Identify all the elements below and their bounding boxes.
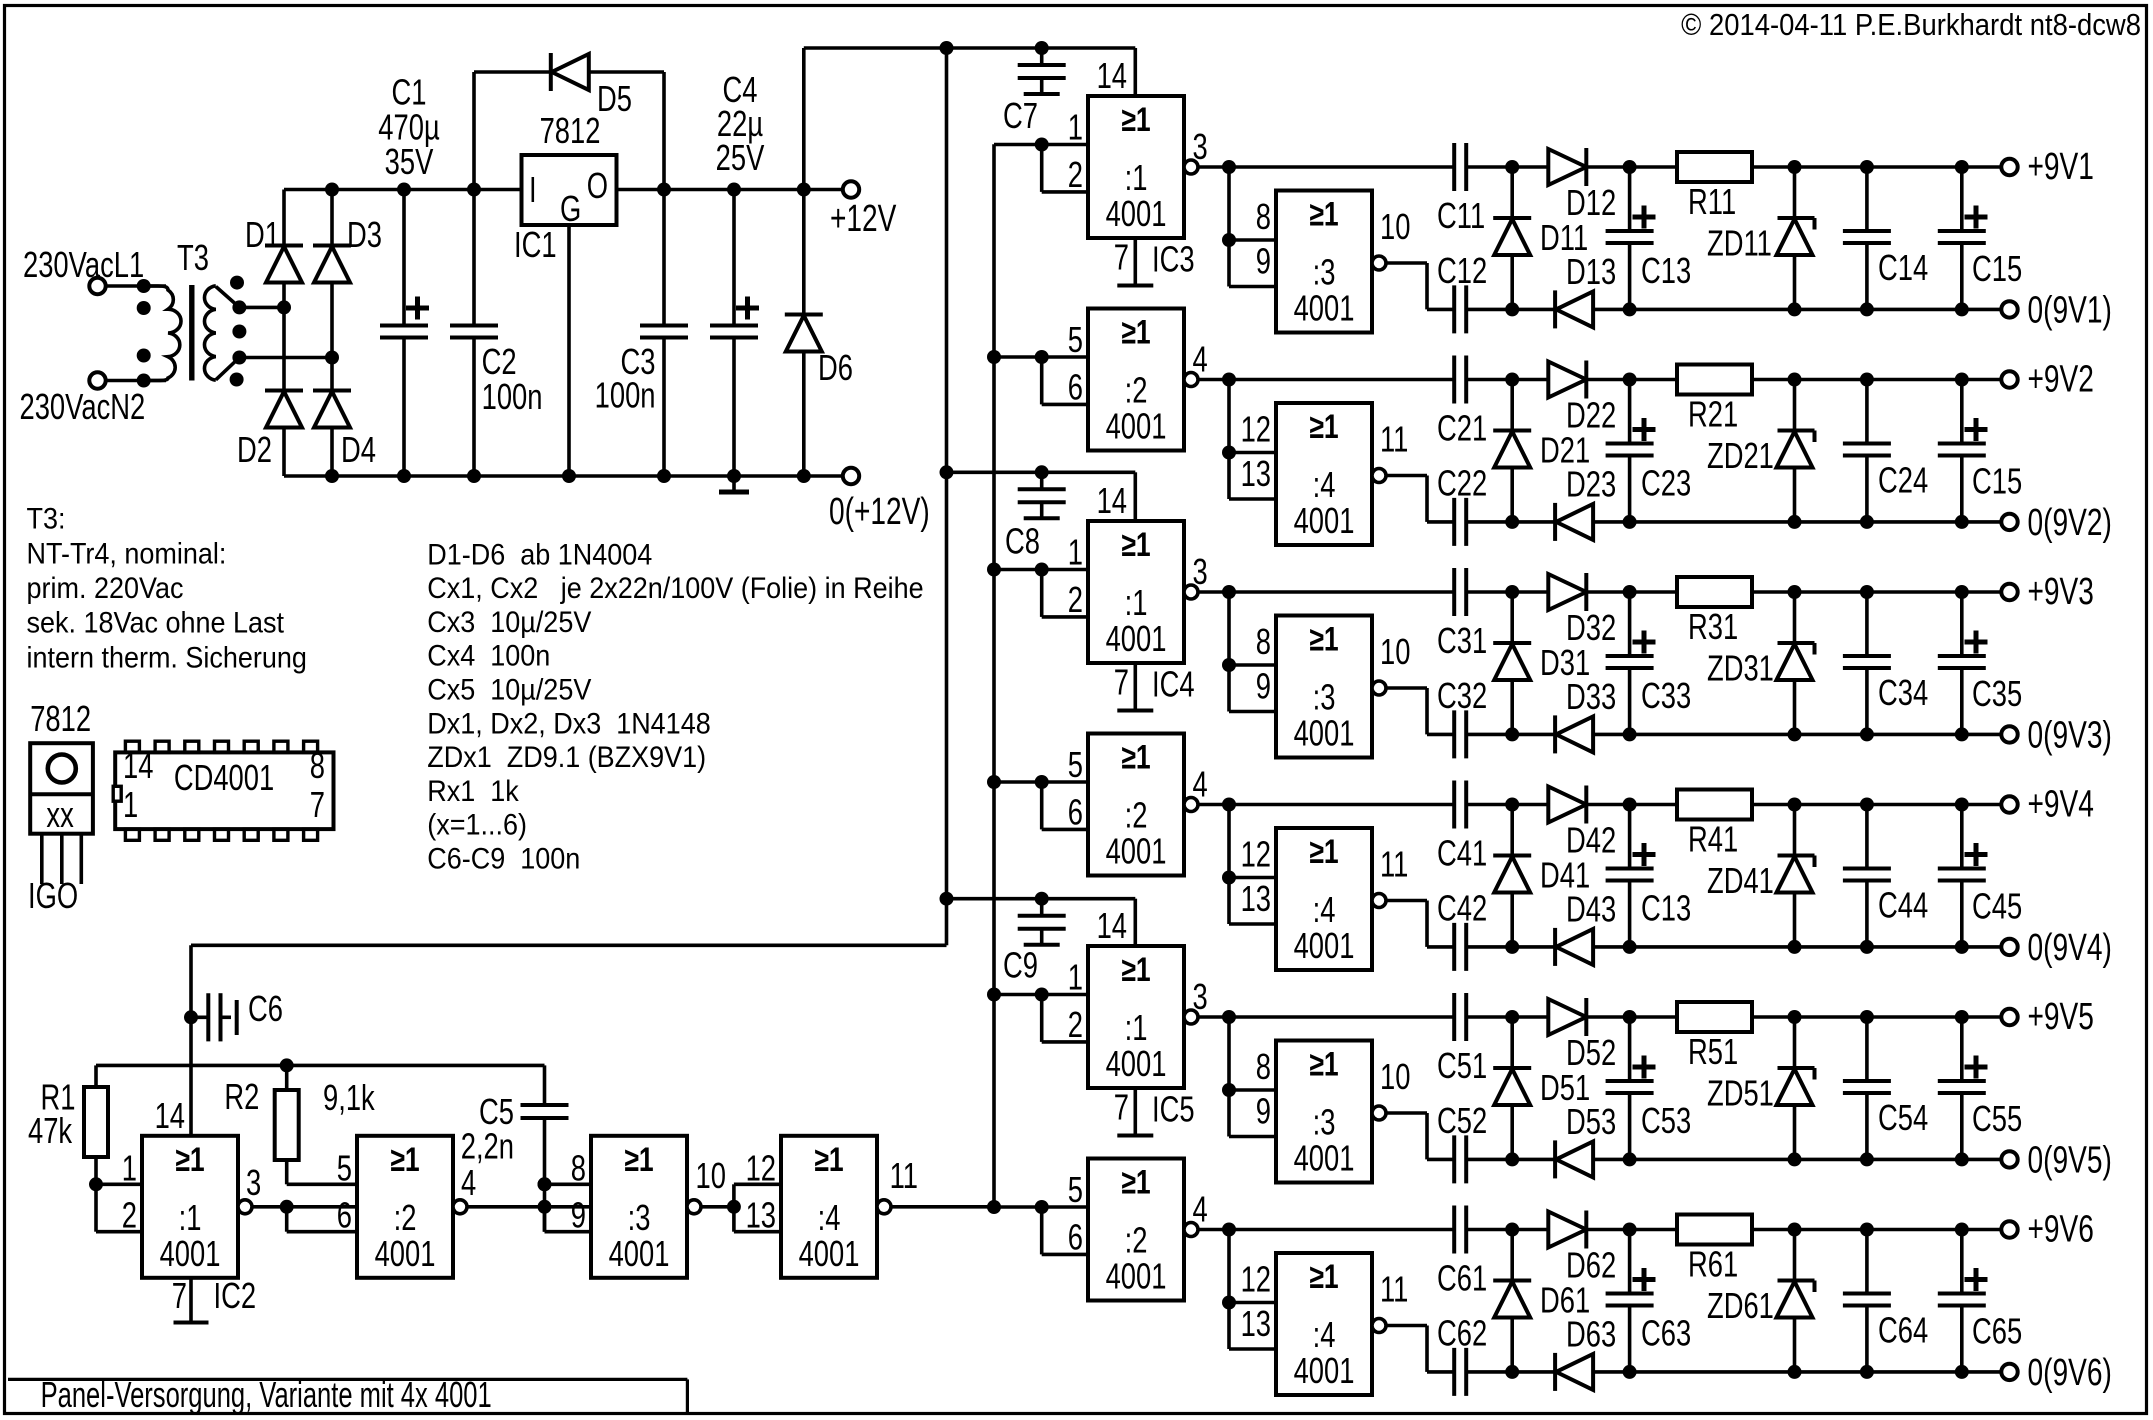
svg-text:230VacN2: 230VacN2 bbox=[20, 386, 146, 427]
label C15 channel 2 bbox=[1972, 461, 2022, 502]
label D1 bbox=[245, 214, 280, 255]
pin 2 IC4:1 bbox=[1068, 579, 1083, 620]
svg-text:0(9V2): 0(9V2) bbox=[2028, 502, 2112, 544]
capacitor C32 bbox=[1454, 710, 1466, 758]
gate IC2:2 output bubble bbox=[453, 1200, 467, 1214]
label C8 bbox=[1005, 521, 1040, 562]
svg-text:2: 2 bbox=[122, 1195, 137, 1236]
zener ZD11 bbox=[1777, 167, 1815, 309]
svg-text:D13: D13 bbox=[1566, 251, 1616, 292]
capacitor C65 channel 6 bbox=[1938, 1230, 1988, 1372]
diode D4 bbox=[313, 358, 351, 477]
gate IC5:2 output bubble bbox=[1184, 1223, 1198, 1237]
svg-text:100n: 100n bbox=[595, 375, 656, 416]
wire pin 7 ground IC4 bbox=[1117, 663, 1153, 711]
wire secondary tap lower bbox=[216, 351, 339, 380]
label D42 bbox=[1566, 820, 1616, 861]
svg-text:C23: C23 bbox=[1641, 463, 1691, 504]
svg-text:1: 1 bbox=[1068, 532, 1083, 573]
wire IC2 pin7 ground bbox=[174, 1278, 209, 1323]
svg-text:6: 6 bbox=[337, 1195, 352, 1236]
svg-text:11: 11 bbox=[890, 1155, 918, 1196]
capacitor C31 bbox=[1454, 568, 1466, 616]
wire channel 2 bottom rail bbox=[1427, 515, 2001, 529]
op-amp gate IC4:2 bbox=[1088, 734, 1184, 876]
svg-text:C31: C31 bbox=[1437, 620, 1487, 661]
svg-text:13: 13 bbox=[1241, 1303, 1271, 1344]
terminal +9V1 bbox=[2001, 159, 2017, 175]
label 0(9V4) bbox=[2028, 927, 2112, 969]
label +9V1 bbox=[2028, 146, 2094, 188]
wire pin 14 IC3 bbox=[1134, 48, 1138, 96]
wire channel 6 top rail bbox=[1198, 1223, 2001, 1237]
svg-text:C35: C35 bbox=[1972, 673, 2022, 714]
svg-text:0(9V6): 0(9V6) bbox=[2028, 1352, 2112, 1394]
svg-text:CD4001: CD4001 bbox=[174, 757, 274, 798]
label C32 bbox=[1437, 675, 1487, 716]
svg-text:14: 14 bbox=[123, 745, 153, 786]
diode D31 bbox=[1493, 592, 1531, 734]
svg-text:1: 1 bbox=[1068, 107, 1083, 148]
wire gate B input jog 13 bbox=[1229, 1303, 1276, 1350]
svg-text:C13: C13 bbox=[1641, 888, 1691, 929]
label C9 bbox=[1003, 945, 1038, 986]
label C2 value 100n bbox=[482, 376, 543, 417]
gate IC4:3 output bubble bbox=[1372, 681, 1386, 695]
wire pin 14 IC4 bbox=[1134, 472, 1138, 521]
wire IC2 pin1 bbox=[89, 1177, 142, 1191]
terminal 0(9V5) bbox=[2001, 1151, 2017, 1167]
resistor R1 bbox=[84, 1065, 108, 1184]
label D63 bbox=[1566, 1314, 1616, 1355]
wire gate B output step bbox=[1386, 263, 1427, 309]
gate IC2:2 bbox=[357, 1136, 453, 1278]
svg-text:T3:: T3: bbox=[27, 502, 66, 536]
gate IC3:2 output bubble bbox=[1184, 373, 1198, 387]
svg-text:8: 8 bbox=[1256, 621, 1271, 662]
label ZD11 bbox=[1707, 223, 1772, 264]
wire gate B input 12 bbox=[1222, 805, 1276, 885]
svg-text:4001: 4001 bbox=[1294, 500, 1355, 541]
capacitor C15 channel 1 bbox=[1938, 167, 1988, 309]
svg-text:7812: 7812 bbox=[540, 110, 601, 151]
svg-text:≥1: ≥1 bbox=[1309, 1045, 1338, 1083]
wire N2 to primary bbox=[106, 374, 167, 388]
pin 9 IC2 bbox=[571, 1195, 586, 1236]
terminal +9V2 bbox=[2001, 371, 2017, 387]
label C62 bbox=[1437, 1313, 1487, 1354]
label R2 bbox=[224, 1076, 259, 1117]
svg-text:4001: 4001 bbox=[160, 1233, 221, 1274]
svg-text::3: :3 bbox=[1313, 1102, 1336, 1143]
capacitor C14 bbox=[1843, 167, 1891, 309]
svg-text:D32: D32 bbox=[1566, 607, 1616, 648]
svg-text:5: 5 bbox=[337, 1148, 352, 1189]
wire pin 7 ground IC3 bbox=[1117, 238, 1153, 286]
wire input gate IC4:2 bbox=[987, 775, 1088, 789]
CD4001 package drawing bbox=[113, 741, 333, 840]
svg-text:7: 7 bbox=[172, 1275, 187, 1316]
pin 10 IC3:3 bbox=[1380, 206, 1410, 247]
svg-text:T3: T3 bbox=[177, 237, 209, 278]
wire gate B output step bbox=[1386, 901, 1427, 947]
label D11 bbox=[1540, 217, 1588, 258]
pin 1 IC2 bbox=[122, 1148, 137, 1189]
wire input gate IC3:2 bbox=[987, 350, 1088, 364]
svg-text:9: 9 bbox=[1256, 666, 1271, 707]
label C3 value 100n bbox=[595, 375, 656, 416]
svg-text:2: 2 bbox=[1068, 154, 1083, 195]
capacitor C53 channel 5 bbox=[1606, 1017, 1656, 1159]
label R2 value 9,1k bbox=[323, 1077, 376, 1118]
pin 10 IC5:3 bbox=[1380, 1056, 1410, 1097]
wire IC2:1 out bbox=[252, 1200, 357, 1214]
pin 3 IC3:1 bbox=[1193, 126, 1208, 167]
svg-text:IC4: IC4 bbox=[1152, 664, 1195, 705]
svg-text:C13: C13 bbox=[1641, 250, 1691, 291]
svg-text:≥1: ≥1 bbox=[1309, 408, 1338, 446]
svg-text:IGO: IGO bbox=[28, 875, 78, 916]
svg-text:7812: 7812 bbox=[30, 698, 91, 739]
capacitor C41 bbox=[1454, 781, 1466, 829]
label R11 bbox=[1688, 181, 1736, 222]
pin 9 IC5:3 bbox=[1256, 1091, 1271, 1132]
svg-text:0(9V1): 0(9V1) bbox=[2028, 289, 2112, 331]
svg-text:C64: C64 bbox=[1878, 1310, 1928, 1351]
diode D42 bbox=[1548, 786, 1586, 824]
pin 1 IC4:1 bbox=[1068, 532, 1083, 573]
diode D21 bbox=[1493, 380, 1531, 522]
svg-text:ZD21: ZD21 bbox=[1707, 435, 1774, 476]
wire channel 4 top rail bbox=[1198, 798, 2001, 812]
transformer T3 secondary dots bbox=[230, 276, 247, 387]
svg-text:4: 4 bbox=[1193, 339, 1208, 380]
wire gate B input 8 bbox=[1222, 1017, 1276, 1097]
svg-text:13: 13 bbox=[1241, 878, 1271, 919]
svg-text:≥1: ≥1 bbox=[1121, 1163, 1150, 1201]
capacitor C11 bbox=[1454, 143, 1466, 191]
wire IC2:3 out bbox=[701, 1200, 741, 1214]
svg-text:C7: C7 bbox=[1003, 95, 1038, 136]
svg-text:14: 14 bbox=[1097, 55, 1127, 96]
diode D1 bbox=[265, 190, 303, 308]
svg-text:IC2: IC2 bbox=[214, 1275, 257, 1316]
wire secondary tap upper bbox=[216, 287, 291, 315]
wire channel 5 bottom rail bbox=[1427, 1152, 2001, 1166]
svg-text:3: 3 bbox=[246, 1162, 261, 1203]
svg-text:IC5: IC5 bbox=[1152, 1089, 1195, 1130]
svg-text::1: :1 bbox=[1125, 157, 1148, 198]
terminal +9V6 bbox=[2001, 1221, 2017, 1237]
label C5 bbox=[479, 1091, 514, 1132]
pin 7 IC5 bbox=[1114, 1087, 1129, 1128]
pin 2 IC3:1 bbox=[1068, 154, 1083, 195]
svg-text:12: 12 bbox=[1241, 409, 1271, 450]
pin 4 IC5:2 bbox=[1193, 1189, 1208, 1230]
label C3 bbox=[621, 341, 656, 382]
label C64 bbox=[1878, 1310, 1928, 1351]
label C14 bbox=[1878, 247, 1928, 288]
svg-text::2: :2 bbox=[1125, 1220, 1148, 1261]
label 230VacL1 bbox=[23, 244, 144, 285]
diode D33 bbox=[1555, 715, 1593, 753]
label C4 value 25V bbox=[716, 137, 765, 178]
label C42 bbox=[1437, 888, 1487, 929]
svg-text:12: 12 bbox=[746, 1148, 776, 1189]
svg-text:≥1: ≥1 bbox=[1309, 620, 1338, 658]
wire channel 3 top rail bbox=[1198, 585, 2001, 599]
gate IC2:3 bbox=[591, 1136, 687, 1278]
svg-text:D53: D53 bbox=[1566, 1101, 1616, 1142]
resistor R31 bbox=[1677, 577, 1752, 607]
label D52 bbox=[1566, 1032, 1616, 1073]
svg-text:5: 5 bbox=[1068, 744, 1083, 785]
svg-text:100n: 100n bbox=[482, 376, 543, 417]
label D2 bbox=[237, 429, 272, 470]
wire IC2:2 out bbox=[467, 1205, 591, 1209]
svg-text:≥1: ≥1 bbox=[624, 1141, 653, 1179]
label D31 bbox=[1540, 642, 1590, 683]
wire IC2 pin5 bbox=[287, 1183, 357, 1187]
svg-text:8: 8 bbox=[571, 1148, 586, 1189]
label D41 bbox=[1540, 855, 1590, 896]
wire gate B output step bbox=[1386, 688, 1427, 734]
capacitor C54 bbox=[1843, 1017, 1891, 1159]
svg-text:9,1k: 9,1k bbox=[323, 1077, 376, 1118]
pin 6 IC4:2 bbox=[1068, 792, 1083, 833]
wire channel 1 top rail bbox=[1198, 160, 2001, 174]
wire gate B input jog 9 bbox=[1229, 240, 1276, 287]
svg-text::4: :4 bbox=[1313, 464, 1336, 505]
label C52 bbox=[1437, 1100, 1487, 1141]
capacitor C13 channel 4 bbox=[1606, 805, 1656, 947]
label IC1 bbox=[514, 224, 557, 265]
svg-text:≥1: ≥1 bbox=[1309, 1258, 1338, 1296]
svg-text:+9V4: +9V4 bbox=[2028, 784, 2094, 826]
svg-text:≥1: ≥1 bbox=[1121, 526, 1150, 564]
zener ZD21 bbox=[1777, 380, 1815, 522]
svg-text:C55: C55 bbox=[1972, 1098, 2022, 1139]
capacitor C6 bbox=[191, 993, 237, 1041]
svg-text:10: 10 bbox=[1380, 631, 1410, 672]
svg-text:47k: 47k bbox=[28, 1110, 73, 1151]
svg-text:IC3: IC3 bbox=[1152, 239, 1195, 280]
svg-text:D1-D6 ab 1N4004: D1-D6 ab 1N4004 bbox=[427, 538, 652, 572]
capacitor C42 bbox=[1454, 923, 1466, 971]
svg-text:≥1: ≥1 bbox=[175, 1141, 204, 1179]
svg-text:sek. 18Vac ohne Last: sek. 18Vac ohne Last bbox=[27, 606, 285, 640]
label 230VacN2 bbox=[20, 386, 146, 427]
transformer T3 core bbox=[189, 285, 194, 381]
svg-text:ZD41: ZD41 bbox=[1707, 860, 1774, 901]
pin 12 IC4:4 bbox=[1241, 834, 1271, 875]
svg-text:(x=1...6): (x=1...6) bbox=[427, 808, 527, 842]
op-amp gate IC5:1 bbox=[1088, 946, 1184, 1088]
label D62 bbox=[1566, 1245, 1616, 1286]
pin 14 IC5 bbox=[1097, 905, 1127, 946]
svg-text:D2: D2 bbox=[237, 429, 272, 470]
svg-text:25V: 25V bbox=[716, 137, 765, 178]
capacitor C33 channel 3 bbox=[1606, 592, 1656, 734]
label D22 bbox=[1566, 395, 1616, 436]
label C6 bbox=[248, 988, 283, 1029]
label D32 bbox=[1566, 607, 1616, 648]
diode D13 bbox=[1555, 290, 1593, 328]
label D4 bbox=[341, 429, 376, 470]
svg-text:C12: C12 bbox=[1437, 250, 1487, 291]
svg-text:4001: 4001 bbox=[1294, 1138, 1355, 1179]
svg-text:+9V6: +9V6 bbox=[2028, 1209, 2094, 1251]
op-amp gate IC4:1 bbox=[1088, 521, 1184, 663]
svg-text:C22: C22 bbox=[1437, 463, 1487, 504]
wire gate B input 12 bbox=[1222, 380, 1276, 460]
wire +12V vertical bus bbox=[940, 48, 954, 945]
pin 3 IC5:1 bbox=[1193, 976, 1208, 1017]
wire pin 14 IC5 bbox=[1134, 899, 1138, 946]
pin 14 IC4 bbox=[1097, 480, 1127, 521]
svg-text:D52: D52 bbox=[1566, 1032, 1616, 1073]
svg-text:≥1: ≥1 bbox=[814, 1141, 843, 1179]
gate IC3:1 output bubble bbox=[1184, 160, 1198, 174]
pin 10 IC4:3 bbox=[1380, 631, 1410, 672]
svg-text:prim. 220Vac: prim. 220Vac bbox=[27, 572, 184, 606]
wire oscillator signal bus bbox=[992, 144, 996, 1207]
pin 8 IC2 bbox=[571, 1148, 586, 1189]
svg-text::2: :2 bbox=[394, 1197, 417, 1238]
svg-text:R11: R11 bbox=[1688, 181, 1736, 222]
svg-text:R41: R41 bbox=[1688, 819, 1738, 860]
wire input gate IC5:1 bbox=[987, 988, 1088, 1002]
wire rectifier bottom rail bbox=[284, 469, 844, 483]
svg-text:D22: D22 bbox=[1566, 395, 1616, 436]
svg-text:C32: C32 bbox=[1437, 675, 1487, 716]
label IC3 bbox=[1152, 239, 1195, 280]
diode D2 bbox=[265, 307, 303, 476]
capacitor C1 bbox=[380, 190, 429, 477]
label C35 channel 3 bbox=[1972, 673, 2022, 714]
label D61 bbox=[1540, 1280, 1590, 1321]
label +12V bbox=[830, 198, 897, 240]
wire gate B input 8 bbox=[1222, 167, 1276, 247]
svg-text:9: 9 bbox=[1256, 241, 1271, 282]
svg-text:D6: D6 bbox=[818, 347, 853, 388]
pin 7 IC4 bbox=[1114, 662, 1129, 703]
resistor R2 bbox=[275, 1065, 299, 1184]
label D5 bbox=[597, 78, 632, 119]
diode D11 bbox=[1493, 167, 1531, 309]
svg-text:6: 6 bbox=[1068, 367, 1083, 408]
capacitor C52 bbox=[1454, 1135, 1466, 1183]
wire IC2 pin6 jog bbox=[287, 1207, 357, 1232]
wire input jog pin 2 IC3 bbox=[1042, 145, 1088, 192]
svg-text:14: 14 bbox=[1097, 905, 1127, 946]
pin 4 IC3:2 bbox=[1193, 339, 1208, 380]
svg-text::2: :2 bbox=[1125, 795, 1148, 836]
label D51 bbox=[1540, 1067, 1590, 1108]
terminal +12V bbox=[843, 181, 859, 197]
label C63 bbox=[1641, 1313, 1691, 1354]
svg-text:C33: C33 bbox=[1641, 675, 1691, 716]
label C51 bbox=[1437, 1045, 1487, 1086]
svg-text::1: :1 bbox=[179, 1197, 202, 1238]
label R51 bbox=[1688, 1031, 1738, 1072]
gate IC5:1 output bubble bbox=[1184, 1010, 1198, 1024]
pin 13 IC3:4 bbox=[1241, 453, 1271, 494]
wire channel 1 bottom rail bbox=[1427, 302, 2001, 316]
svg-text:C21: C21 bbox=[1437, 408, 1487, 449]
pin 13 IC2 bbox=[746, 1195, 776, 1236]
pin 12 IC5:4 bbox=[1241, 1259, 1271, 1300]
svg-text:C42: C42 bbox=[1437, 888, 1487, 929]
svg-text:3: 3 bbox=[1193, 551, 1208, 592]
svg-text:+9V1: +9V1 bbox=[2028, 146, 2094, 188]
label D3 bbox=[347, 214, 382, 255]
svg-text:R51: R51 bbox=[1688, 1031, 1738, 1072]
label C13 bbox=[1641, 888, 1691, 929]
label D6 bbox=[818, 347, 853, 388]
diode D63 bbox=[1555, 1353, 1593, 1391]
svg-text:≥1: ≥1 bbox=[1121, 313, 1150, 351]
pin 8 IC3:3 bbox=[1256, 196, 1271, 237]
svg-text:ZD51: ZD51 bbox=[1707, 1073, 1774, 1114]
resistor R11 bbox=[1677, 152, 1752, 182]
label +9V2 bbox=[2028, 359, 2094, 401]
svg-text:7: 7 bbox=[1114, 1087, 1129, 1128]
label ZD31 bbox=[1707, 648, 1774, 689]
wire gate B input jog 13 bbox=[1229, 453, 1276, 500]
diode D43 bbox=[1555, 928, 1593, 966]
transformer T3 primary winding bbox=[144, 286, 181, 381]
svg-text:4001: 4001 bbox=[1106, 193, 1167, 234]
label R31 bbox=[1688, 606, 1738, 647]
svg-text:14: 14 bbox=[155, 1095, 185, 1136]
label D53 bbox=[1566, 1101, 1616, 1142]
gate IC4:4 output bubble bbox=[1372, 894, 1386, 908]
diode D12 bbox=[1548, 148, 1586, 186]
label C55 channel 5 bbox=[1972, 1098, 2022, 1139]
label D23 bbox=[1566, 464, 1616, 505]
svg-text:10: 10 bbox=[1380, 206, 1410, 247]
svg-text:2,2n: 2,2n bbox=[461, 1126, 514, 1167]
op-amp gate IC5:4 bbox=[1276, 1253, 1372, 1395]
terminal 0(9V1) bbox=[2001, 301, 2017, 317]
zener ZD31 bbox=[1777, 592, 1815, 734]
svg-text:9: 9 bbox=[1256, 1091, 1271, 1132]
label D21 bbox=[1540, 430, 1590, 471]
label R41 bbox=[1688, 819, 1738, 860]
wire input jog pin 6 IC3 bbox=[1042, 357, 1088, 404]
wire input gate IC5:2 bbox=[987, 1200, 1088, 1214]
svg-text:C65: C65 bbox=[1972, 1311, 2022, 1352]
svg-text:xx: xx bbox=[46, 794, 73, 835]
capacitor C4 bbox=[710, 190, 759, 477]
gate IC2:1 output bubble bbox=[238, 1200, 252, 1214]
svg-text:C8: C8 bbox=[1005, 521, 1040, 562]
label C1 value 35V bbox=[385, 141, 434, 182]
capacitor C13 channel 1 bbox=[1606, 167, 1656, 309]
svg-text:≥1: ≥1 bbox=[1121, 101, 1150, 139]
svg-text:12: 12 bbox=[1241, 834, 1271, 875]
label R21 bbox=[1688, 394, 1738, 435]
svg-text:C34: C34 bbox=[1878, 672, 1928, 713]
gate IC3:3 output bubble bbox=[1372, 256, 1386, 270]
diode D51 bbox=[1493, 1017, 1531, 1159]
capacitor C12 bbox=[1454, 285, 1466, 333]
label R1 bbox=[41, 1077, 76, 1118]
svg-text:13: 13 bbox=[1241, 453, 1271, 494]
svg-text::4: :4 bbox=[1313, 1314, 1336, 1355]
gate IC3:4 output bubble bbox=[1372, 469, 1386, 483]
